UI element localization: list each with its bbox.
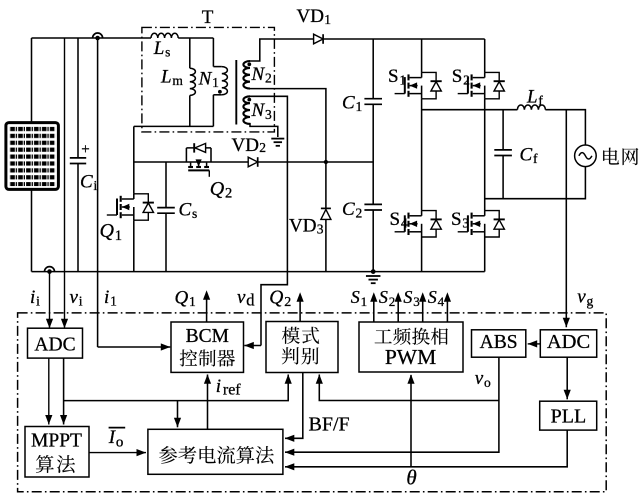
svg-text:MPPT: MPPT: [31, 431, 82, 452]
wire node vd line: [134, 161, 248, 163]
wire bottom rail: [32, 271, 485, 273]
box MPPT: [25, 427, 89, 478]
signal S up arrows: [373, 295, 375, 323]
ground N3: [271, 138, 284, 140]
inductor Ls: [151, 33, 178, 38]
box cankao: [148, 429, 283, 474]
wire ADC to ABS: [528, 343, 541, 345]
wire Q1 drain leg: [133, 126, 135, 162]
capacitor Ci: [77, 38, 79, 158]
wire theta branch to PWM: [410, 375, 412, 467]
capacitor Cf: [502, 110, 504, 150]
box ADC left: [28, 328, 83, 358]
box moshi panbie: [266, 322, 338, 373]
wire branch down into cankao: [177, 401, 179, 428]
wire bridge output to Lf: [422, 109, 518, 111]
control border dash-dot: [18, 313, 607, 492]
svg-text:PLL: PLL: [551, 406, 587, 428]
wire Lf to grid: [545, 110, 585, 145]
inductor Lm: [189, 38, 191, 68]
svg-text:vd: vd: [237, 287, 255, 310]
phase dot N2: [247, 62, 251, 66]
wire vo branch to panbie: [319, 375, 499, 401]
wire ii tap: [49, 272, 51, 329]
mosfet Q1: [133, 162, 135, 194]
mosfet S1: [421, 72, 423, 77]
svg-text:ADC: ADC: [34, 335, 75, 356]
wire N2 top to VD1: [250, 39, 314, 61]
wire VD1 to bridge rail: [324, 38, 485, 40]
AC source grid: [575, 145, 597, 167]
inductor Lf: [517, 105, 545, 110]
box ABS: [472, 330, 526, 357]
wire MPPT to cankao: [89, 452, 146, 454]
mosfet S3: [484, 211, 486, 216]
phase dot N1: [218, 90, 222, 94]
wire BF/F: [285, 373, 303, 439]
diode VD2: [248, 157, 258, 167]
diode VD1: [314, 34, 324, 44]
phase dot N3: [247, 98, 251, 102]
bridge right leg: [484, 39, 486, 72]
wire VD2 to node: [258, 161, 373, 163]
wire PV bottom: [31, 189, 33, 271]
svg-text:PWM: PWM: [385, 345, 436, 369]
svg-text:ABS: ABS: [480, 332, 518, 353]
signal Q1 up arrow: [206, 293, 208, 323]
mosfet Q2 horizontal: [185, 148, 187, 162]
PV panel: [6, 123, 59, 190]
wire ADC to MPPT ii: [48, 358, 50, 424]
svg-text:ADC: ADC: [547, 331, 590, 353]
wire vo: [285, 357, 499, 452]
wire N3 bottom to ground: [250, 123, 278, 137]
signal Q2 up arrow: [299, 295, 301, 322]
wire iref: [207, 375, 209, 430]
junction dot VD3 top: [324, 160, 328, 164]
svg-text:T: T: [202, 7, 214, 28]
wire vi branch to panbie and cankao: [64, 375, 289, 401]
wire vd arrow into BCM: [244, 345, 261, 347]
capacitor Cs: [165, 162, 167, 208]
box ADC right: [540, 330, 596, 357]
wire ADC to PLL: [566, 357, 568, 399]
box BCM: [171, 322, 244, 372]
wire ADC to MPPT vi: [63, 358, 65, 424]
mosfet S4: [421, 211, 423, 216]
wire vg sense: [565, 110, 567, 328]
wire N2 bottom: [250, 89, 326, 162]
wire N3 top (vd sense): [250, 96, 287, 345]
transformer box T: [142, 27, 275, 131]
capacitor C1: [372, 39, 374, 99]
wire primary bottom: [134, 125, 214, 127]
svg-text:BF/F: BF/F: [309, 414, 350, 436]
wire PV top to rail: [31, 38, 33, 123]
winding N3: [243, 96, 250, 124]
ground bridge rail: [371, 269, 376, 274]
box PLL: [540, 401, 597, 430]
wire theta from PLL: [285, 430, 567, 467]
svg-text:+: +: [81, 142, 89, 158]
svg-text:BCM: BCM: [186, 326, 229, 347]
current sensor ii: [45, 267, 55, 272]
mosfet S2: [484, 72, 486, 77]
wire grid bottom return: [485, 167, 586, 199]
bridge left leg: [421, 39, 423, 72]
current sensor i1: [93, 33, 103, 38]
wire i1 tap: [97, 38, 99, 347]
svg-text:θ: θ: [406, 466, 416, 490]
winding N2: [243, 61, 250, 89]
capacitor C2: [364, 203, 382, 205]
box PWM: [359, 322, 463, 372]
core: [235, 60, 237, 125]
wire vi tap: [64, 38, 66, 328]
wire top rail: [32, 37, 152, 39]
winding N1: [212, 38, 214, 67]
diode VD3: [325, 162, 327, 208]
label dianwang: [603, 148, 638, 165]
